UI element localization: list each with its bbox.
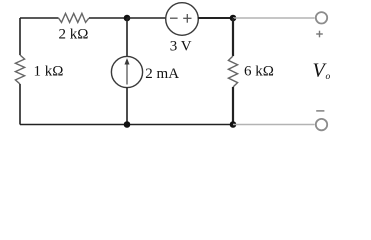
terminal bottom (open circle) <box>316 119 327 130</box>
resistor 1 kOhm (left) <box>15 55 24 84</box>
wire voltage source to node B <box>198 17 233 19</box>
node D (bottom right junction) <box>230 121 237 128</box>
svg-text:1 kΩ: 1 kΩ <box>34 64 64 80</box>
resistor 2 kOhm (top) <box>59 13 90 22</box>
wire (gray) node D to bottom terminal <box>233 124 315 126</box>
plus sign (output polarity) <box>316 33 323 35</box>
wire (gray) node B to top terminal <box>233 17 315 19</box>
wire left vertical lower <box>19 84 21 125</box>
wire right branch lower <box>232 87 234 125</box>
wire bottom horizontal <box>20 124 233 126</box>
current source I1 circle <box>111 56 142 87</box>
svg-text:2 mA: 2 mA <box>145 66 179 82</box>
wire resistor to node A <box>89 17 127 19</box>
plus sign inside source <box>183 17 191 19</box>
current source arrow (up) <box>126 64 128 85</box>
node A (top middle junction) <box>124 15 131 22</box>
svg-text:2 kΩ: 2 kΩ <box>59 27 89 43</box>
wire middle branch lower <box>126 88 128 125</box>
wire node A to voltage source <box>127 17 166 19</box>
node B (top right junction) <box>230 15 237 22</box>
resistor 6 kOhm (right) <box>228 56 237 87</box>
svg-text:3 V: 3 V <box>170 38 192 54</box>
node C (bottom middle junction) <box>124 121 131 128</box>
wire top-left horizontal <box>20 17 59 19</box>
wire right branch upper <box>232 18 234 56</box>
wire left vertical upper <box>19 18 21 55</box>
svg-text:o: o <box>326 72 331 82</box>
terminal top (open circle) <box>316 12 327 23</box>
voltage source V1 circle <box>166 3 199 36</box>
minus sign inside source <box>170 17 178 19</box>
minus sign (output polarity) <box>316 110 324 112</box>
wire middle branch upper <box>126 18 128 56</box>
svg-text:6 kΩ: 6 kΩ <box>244 64 274 80</box>
